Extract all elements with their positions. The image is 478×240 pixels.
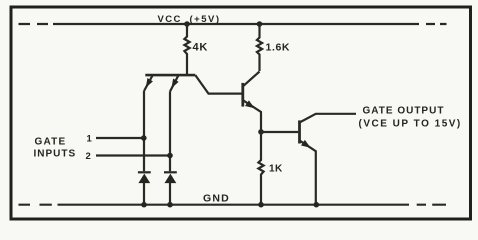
wire emitter1 vertical [143,91,145,171]
junction GND/Q3 emitter [314,202,320,208]
svg-text:1: 1 [87,133,93,144]
svg-text:1K: 1K [269,163,283,174]
junction input1/emitter1 [141,135,147,141]
diode D2 [164,172,177,204]
svg-text:1.6K: 1.6K [266,42,291,54]
wire Q1 emitter 1 slant [144,76,153,92]
arrow Q1 emitter 2 [172,79,179,89]
wire Q3 base [261,131,298,133]
svg-text:VCC: VCC [158,14,182,25]
resistor 1.6K [257,24,262,71]
wire Q3 emitter slant [300,140,316,204]
node VCC label [158,14,221,25]
diode D1 [138,172,151,204]
wire emitter2 vertical [169,92,171,172]
wire input 2 [96,154,170,156]
junction VCC/4K [184,21,190,27]
svg-text:2: 2 [86,151,91,162]
junction GND/D2 [167,202,173,208]
resistor 4K [184,24,189,74]
junction phase splitter emitter node [258,129,264,135]
arrow Q1 emitter 1 [146,78,153,88]
wire Q2 collector slant [244,72,260,86]
arrow Q2 emitter [245,100,255,108]
arrow Q3 emitter [301,140,311,148]
svg-text:(+5V): (+5V) [190,14,221,25]
label GATE INPUTS [34,137,77,160]
svg-text:(VCE UP TO 15V): (VCE UP TO 15V) [359,118,462,129]
svg-text:GATE OUTPUT: GATE OUTPUT [363,106,445,117]
junction VCC/1.6K [257,21,263,27]
label GATE OUTPUT [359,106,462,130]
junction GND/1K [258,202,264,208]
transistor Q3 (output) [298,120,301,143]
transistor Q2 (phase splitter) [241,83,244,107]
wire input 1 [96,137,144,139]
wire Q2 emitter slant [244,101,262,132]
wire Q3 collector / gate output [300,114,357,123]
svg-text:4K: 4K [193,42,209,54]
svg-text:GND: GND [203,193,230,205]
net VCC rail wire [19,23,447,25]
resistor 1K [258,132,263,204]
svg-text:INPUTS: INPUTS [34,148,77,159]
svg-text:GATE: GATE [35,137,67,148]
junction input2/emitter2 [167,153,173,159]
transistor Q1 (multi-emitter input) [145,74,195,77]
junction GND/D1 [141,202,147,208]
net GND rail wire [19,204,447,206]
wire Q1 emitter 2 slant [170,76,178,92]
wire Q1 collector slant [195,75,242,94]
